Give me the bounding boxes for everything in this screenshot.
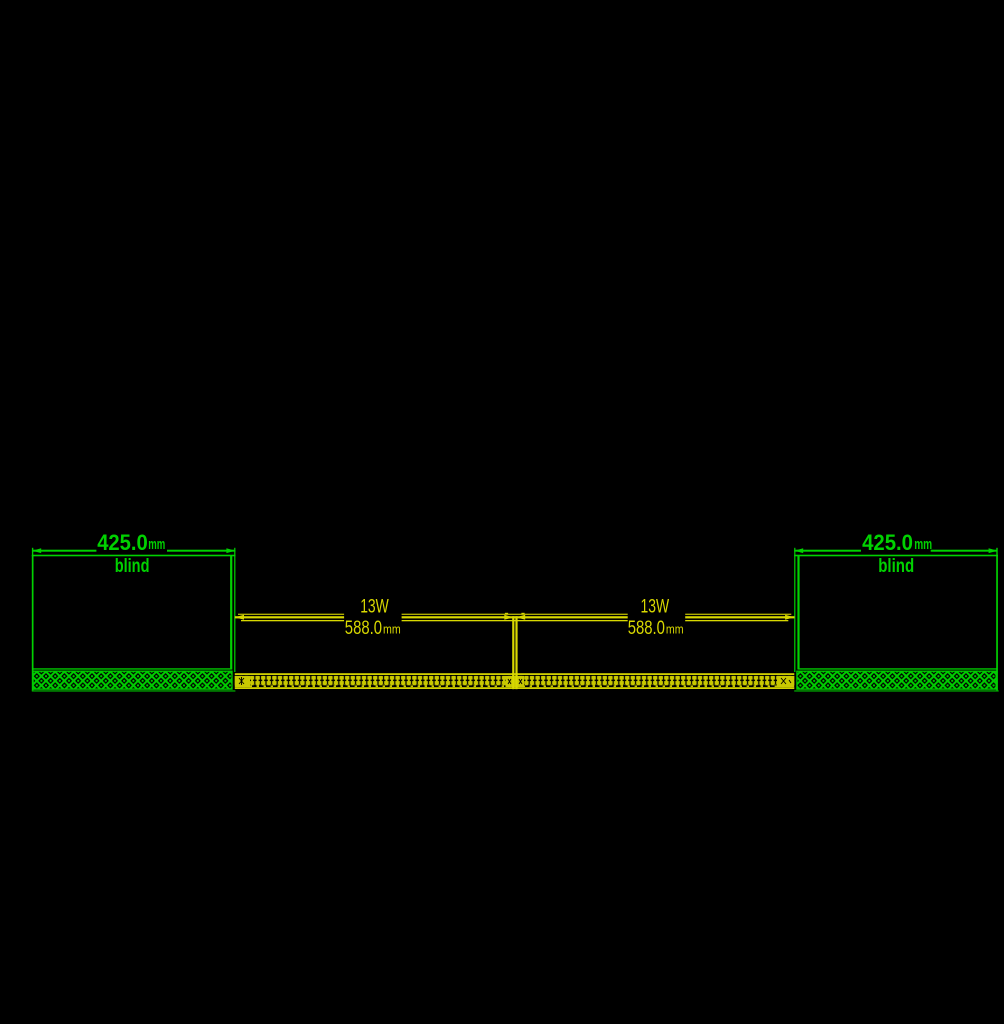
svg-text:mm: mm — [914, 536, 932, 553]
right box hatch band — [797, 671, 997, 690]
right box dimension line (green, broken for text) — [794, 550, 861, 552]
yellow dim arrowhead at right box — [785, 615, 794, 620]
svg-text:588.0: 588.0 — [345, 618, 382, 639]
right box top edge — [794, 555, 998, 557]
sill strip center block — [506, 676, 525, 687]
left box left edge — [32, 555, 34, 691]
main dimension line right segment — [685, 616, 794, 618]
left box dim extension ticks — [32, 548, 33, 556]
svg-text:mm: mm — [383, 622, 401, 636]
right box dim extension ticks — [794, 548, 795, 556]
sill strip bottom border — [235, 687, 795, 689]
left box bottom edge — [32, 690, 236, 691]
sill strip left end block — [235, 676, 250, 687]
sill strip patterned body — [235, 676, 795, 686]
main dimension line middle segments — [402, 616, 628, 618]
right box outer left edge — [794, 555, 795, 672]
sill strip left end block mark — [239, 677, 244, 685]
svg-text:blind: blind — [878, 555, 914, 577]
yellow dim arrowhead at left box — [235, 615, 244, 620]
center mullion vertical line 2 — [515, 616, 517, 689]
sill strip top border — [235, 673, 795, 675]
main dimension line left segment — [235, 616, 344, 618]
sill strip dashed row — [235, 685, 795, 687]
svg-text:mm: mm — [666, 622, 684, 636]
left box dim arrowhead left — [32, 548, 41, 553]
right box dim arrowhead right — [989, 548, 998, 553]
center tick marks — [505, 613, 508, 614]
left box hatch band — [33, 671, 233, 690]
svg-text:blind: blind — [115, 555, 150, 577]
left box interior bottom line — [33, 668, 232, 669]
right box dim arrowhead left — [794, 548, 803, 553]
svg-text:588.0: 588.0 — [628, 618, 665, 639]
svg-text:425.0: 425.0 — [862, 530, 913, 555]
right box interior bottom line — [798, 668, 997, 669]
lower rail line — [241, 620, 344, 621]
svg-text:425.0: 425.0 — [97, 530, 148, 555]
right box inner left edge — [797, 555, 799, 670]
sill strip right end block marks — [781, 678, 791, 684]
svg-text:mm: mm — [148, 536, 165, 553]
left box top edge — [32, 555, 236, 557]
sill strip center block marks — [508, 679, 522, 684]
yellow dim arrowheads at center — [504, 615, 513, 620]
sill strip right end block — [777, 676, 794, 687]
upper rail line — [238, 614, 344, 615]
left box dim arrowhead right — [226, 548, 235, 553]
right box bottom edge — [794, 690, 999, 691]
center mullion vertical line 1 — [512, 616, 514, 689]
left box outer right edge — [234, 555, 235, 672]
left box inner right edge — [230, 555, 232, 670]
left box dimension line (green, broken for text) — [32, 550, 96, 552]
right box right edge — [996, 555, 998, 691]
svg-text:13W: 13W — [360, 597, 389, 618]
center mullion through strip — [512, 673, 514, 689]
svg-text:13W: 13W — [641, 597, 670, 618]
